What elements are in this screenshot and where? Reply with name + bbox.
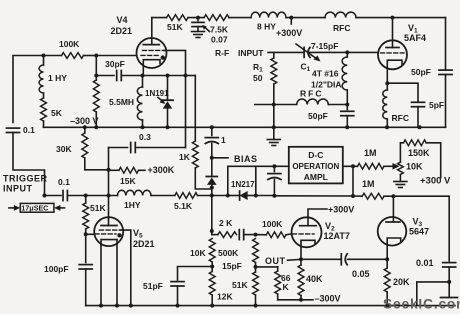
- label 1 HY: [48, 73, 67, 83]
- node 5pF bottom: [418, 125, 422, 129]
- svg-text:15K: 15K: [120, 176, 136, 186]
- svg-text:0.07: 0.07: [211, 35, 228, 45]
- resistor 51K trigger: [83, 196, 89, 235]
- V5 grid row1: [100, 229, 121, 231]
- wire 51K to 0.07 node: [188, 17, 204, 19]
- box D-C OPERATION AMPL: [289, 147, 343, 184]
- inductor RFC top: [325, 12, 356, 18]
- svg-text:51K: 51K: [167, 22, 183, 32]
- label 1/2 DIA: [311, 80, 342, 90]
- wire top bus from V4 plate to 51K: [152, 17, 167, 19]
- wire diode to row: [211, 185, 213, 196]
- capacitor 0.07: [192, 18, 204, 31]
- label 1K: [179, 152, 191, 162]
- label 0.1 trigger: [58, 177, 70, 187]
- label 1M lower: [362, 179, 375, 189]
- svg-text:RFC: RFC: [300, 89, 323, 99]
- wire 8HY node to RFC: [286, 17, 325, 19]
- svg-text:RFC: RFC: [333, 23, 350, 33]
- resistor grid leak: [93, 80, 99, 112]
- wire right rail to bus: [445, 75, 447, 128]
- wire 150K to right leg: [426, 143, 441, 178]
- wire V4 grid1 to vertical: [164, 50, 186, 75]
- V5 plate bar: [101, 219, 117, 226]
- resistor 10K stack: [209, 239, 215, 263]
- resistor 500K: [253, 239, 259, 263]
- capacitor C1 variable 7-15pF: [296, 44, 321, 62]
- wire C1 to coil node: [309, 51, 347, 53]
- svg-text:1HY: 1HY: [124, 200, 141, 210]
- wire bottom bus: [86, 305, 455, 307]
- inductor 1HY horizontal: [118, 190, 152, 195]
- label V1: [404, 23, 426, 43]
- node 51K bottom: [254, 304, 258, 308]
- svg-text:15pF: 15pF: [222, 261, 242, 271]
- svg-text:8 HY: 8 HY: [257, 22, 276, 32]
- wire RFC to V1 plate node: [356, 17, 393, 19]
- node grid leak bottom: [94, 125, 98, 129]
- node 15K tee: [107, 168, 111, 172]
- svg-text:OUT: OUT: [265, 256, 286, 266]
- svg-text:50pF: 50pF: [308, 111, 328, 121]
- V5 grid row2: [95, 233, 116, 235]
- svg-text:1: 1: [221, 135, 226, 145]
- svg-text:50pF: 50pF: [411, 67, 431, 77]
- node V5 cathode bottom: [99, 304, 103, 308]
- V5 inner dot: [117, 233, 121, 237]
- tube V3 envelope: [378, 217, 407, 246]
- wire 5K to -300V bus: [43, 121, 45, 127]
- wire V1 plate lead: [392, 18, 394, 48]
- tube V5 envelope: [94, 217, 123, 246]
- diode 1N217: [240, 191, 248, 200]
- label +300K: [148, 165, 175, 175]
- label 0.01: [416, 258, 434, 268]
- label 10K pot: [406, 162, 423, 172]
- node 1N217 right: [254, 194, 258, 198]
- svg-text:R-F: R-F: [215, 48, 229, 58]
- node 12K bottom: [210, 304, 214, 308]
- V2 grid dashes: [293, 233, 315, 235]
- V4 plate bar: [143, 44, 159, 46]
- label 0.07 with arrow: [202, 25, 228, 45]
- pulse symbol 17uSEC: [9, 203, 65, 212]
- capacitor 0.05: [341, 254, 347, 265]
- diode 1N191: [162, 100, 173, 108]
- svg-text:1N217: 1N217: [231, 180, 255, 189]
- label 5K: [51, 108, 63, 118]
- label 66K: [281, 273, 291, 292]
- wire pot to ground: [399, 175, 401, 181]
- svg-text:+300K: +300K: [148, 165, 175, 175]
- capacitor 0.01: [443, 263, 456, 282]
- V1 grid dashes: [381, 52, 405, 54]
- capacitor coupling 2K row: [239, 230, 243, 240]
- label 40K: [306, 274, 323, 284]
- wire 1 cap to diode: [211, 158, 213, 177]
- node 30K top: [83, 125, 87, 129]
- wire 50pF to bus: [346, 116, 348, 128]
- svg-text:1 HY: 1 HY: [48, 73, 67, 83]
- label 0.05: [352, 269, 370, 279]
- label 30K: [56, 144, 72, 154]
- resistor 5.1K: [175, 193, 198, 199]
- wire -300V lower: [278, 299, 313, 301]
- ground R1: [267, 127, 280, 145]
- wire V3 cathode down: [386, 243, 388, 260]
- node 20K bottom: [385, 304, 389, 308]
- capacitor 50pF lower-left: [341, 111, 354, 115]
- svg-text:100K: 100K: [262, 219, 283, 229]
- V3 cathode: [387, 238, 401, 243]
- wire 1N191 top lead: [167, 76, 169, 101]
- wire -300V bus: [44, 126, 446, 128]
- resistor 1M lower: [362, 193, 384, 199]
- capacitor 0.3: [131, 143, 136, 153]
- label 20K: [393, 277, 410, 287]
- inductor 1 HY vertical: [39, 56, 43, 94]
- label V3: [409, 217, 429, 237]
- node 30pF tee: [94, 74, 98, 78]
- wire OUT to 0.05: [301, 258, 341, 260]
- wire rail termination: [441, 282, 458, 298]
- wire grid return corner: [186, 75, 196, 77]
- capacitor 100pF: [79, 234, 92, 305]
- inductor 4T #16: [342, 52, 347, 109]
- wire box output: [343, 165, 358, 167]
- svg-text:51K: 51K: [232, 280, 248, 290]
- label V4: [111, 15, 133, 36]
- svg-text:7.5K: 7.5K: [210, 25, 229, 35]
- label +300V top: [276, 28, 302, 38]
- capacitor 30pF: [117, 71, 122, 81]
- wire corner to 20K bottom: [417, 282, 449, 306]
- node 1HY top: [42, 54, 46, 58]
- V2 cathode: [301, 240, 315, 247]
- svg-text:2D21: 2D21: [133, 239, 155, 249]
- node bias tee: [210, 156, 214, 160]
- resistor 51K stack: [253, 272, 259, 306]
- wire cathode node to diode node: [143, 75, 168, 77]
- svg-text:–300V: –300V: [315, 294, 341, 304]
- wire cathode to 5pF: [387, 83, 418, 101]
- resistor 20K: [384, 259, 390, 305]
- node box output: [351, 164, 355, 168]
- inductor RFC left: [297, 99, 329, 105]
- wire bias left vertical: [228, 166, 256, 195]
- svg-text:SeekIC.com: SeekIC.com: [383, 297, 460, 312]
- resistor 51K (plate load V4): [167, 15, 189, 21]
- wire 1HY to 5K: [43, 93, 45, 98]
- wire x108 vertical: [108, 148, 110, 219]
- arrow 1M to pot: [384, 163, 400, 170]
- svg-text:12AT7: 12AT7: [324, 231, 350, 241]
- label INPUT: [3, 184, 33, 194]
- svg-text:100pF: 100pF: [44, 264, 69, 274]
- node right rail corner: [447, 280, 451, 284]
- node 1N191 bottom: [166, 125, 170, 129]
- resistor 100K V2: [266, 232, 286, 238]
- wire node to 100K: [256, 234, 267, 236]
- label 50pF lower: [308, 111, 328, 121]
- node 40K bottom: [299, 298, 303, 302]
- node 1N191 top: [166, 74, 170, 78]
- V5 cathode: [101, 240, 117, 246]
- node V5 plate: [107, 194, 111, 198]
- V4 grid row 2 dashes: [141, 54, 160, 56]
- wire 1M to V3 plate node: [384, 195, 393, 197]
- label 51K: [167, 22, 183, 32]
- wire 66K branch: [256, 266, 278, 268]
- resistor 150K: [404, 140, 427, 146]
- svg-text:+300 V: +300 V: [420, 176, 451, 187]
- wire 0.1 down to trigger step: [13, 133, 45, 196]
- wire 5.1K to 2K node: [198, 195, 212, 197]
- svg-text:17μSEC: 17μSEC: [21, 204, 48, 213]
- capacitor 51pF: [171, 282, 184, 306]
- label 12K: [217, 292, 233, 302]
- inductor RFC right: [383, 83, 388, 127]
- svg-text:RFC: RFC: [392, 113, 409, 123]
- svg-text:5K: 5K: [51, 108, 63, 118]
- svg-text:TRIGGER: TRIGGER: [3, 174, 48, 184]
- wire 51pF branch: [178, 267, 213, 281]
- svg-text:51pF: 51pF: [143, 281, 163, 291]
- node trigger input: [43, 194, 47, 198]
- node V1 plate: [391, 16, 395, 20]
- svg-text:0.01: 0.01: [416, 258, 434, 268]
- label 2 K: [219, 218, 233, 228]
- resistor 30K: [82, 127, 109, 170]
- svg-text:5AF4: 5AF4: [404, 33, 426, 43]
- svg-text:1M: 1M: [362, 179, 375, 189]
- node V5 shield bottom: [129, 304, 133, 308]
- node 50pF top: [345, 103, 349, 107]
- resistor 12K: [209, 272, 215, 306]
- wire trigger to 0.1: [45, 195, 62, 197]
- label RFC top: [333, 23, 350, 33]
- svg-text:0.1: 0.1: [58, 177, 70, 187]
- wire V5 cathode right leg: [116, 240, 118, 306]
- wire bias right vertical: [255, 166, 257, 195]
- resistor 1M upper: [358, 163, 385, 169]
- svg-text:K: K: [283, 282, 290, 292]
- node diode top: [210, 186, 214, 190]
- svg-text:5.5MH: 5.5MH: [109, 97, 134, 107]
- wire 100K to V2 grid: [286, 233, 292, 236]
- wire node to V4 grid: [96, 55, 136, 57]
- wire box output down: [352, 166, 354, 196]
- wire crossover x=195.3: [194, 76, 196, 142]
- node 5.5MH bottom: [141, 125, 145, 129]
- node 50pF bottom: [345, 125, 349, 129]
- V4 cathode: [143, 60, 160, 66]
- wire bias stub: [212, 157, 228, 159]
- wire grid node down: [95, 56, 97, 76]
- label 100K: [59, 39, 80, 49]
- label 30pF: [105, 59, 125, 69]
- label -300V lower: [315, 294, 341, 304]
- wire to 1N217 left node: [212, 195, 228, 197]
- svg-text:20K: 20K: [393, 277, 410, 287]
- svg-text:2D21: 2D21: [111, 26, 133, 36]
- label 0.3: [139, 132, 151, 142]
- label 50pF right: [411, 67, 431, 77]
- label 5.1K: [174, 201, 193, 211]
- wire bias to box: [274, 165, 288, 167]
- tube V1 envelope: [378, 40, 407, 69]
- node V5 right leg bottom: [115, 304, 119, 308]
- svg-text:INPUT: INPUT: [238, 48, 264, 58]
- svg-text:1/2"DIA: 1/2"DIA: [311, 80, 342, 90]
- label 100pF: [44, 264, 69, 274]
- V2 plate bar: [300, 225, 317, 227]
- wire cap node to DC out node: [274, 195, 353, 197]
- wire 1HY to 5.1K: [151, 195, 175, 197]
- wire V1 cathode down: [386, 67, 388, 83]
- svg-text:0.05: 0.05: [352, 269, 370, 279]
- label R1: [253, 62, 263, 83]
- svg-text:12K: 12K: [217, 292, 233, 302]
- wire cap to 500K node: [244, 234, 256, 236]
- label 15K: [120, 176, 136, 186]
- watermark SeekIC.com: [383, 297, 460, 312]
- resistor 66K: [275, 267, 281, 300]
- V1 plate bar: [386, 47, 399, 49]
- wire to 1N217: [228, 195, 240, 197]
- node 2K corner: [210, 229, 214, 233]
- label 15pF: [222, 261, 242, 271]
- resistor 2K: [212, 232, 237, 238]
- inductor 5.5MH: [137, 76, 142, 128]
- svg-text:1N191: 1N191: [145, 89, 169, 98]
- svg-text:1K: 1K: [179, 152, 191, 162]
- wire 0.3 left corner: [109, 147, 128, 149]
- tube V2 envelope: [292, 217, 322, 247]
- capacitor 1: [205, 127, 218, 158]
- wire RFC to 50pF node: [328, 104, 347, 106]
- svg-text:30K: 30K: [56, 144, 72, 154]
- label 1N217: [231, 180, 255, 189]
- svg-text:OPERATION: OPERATION: [292, 162, 339, 171]
- label RFC left: [300, 89, 323, 99]
- resistor 1K: [192, 141, 211, 189]
- resistor 15K: [109, 167, 146, 173]
- V1 cathode: [387, 60, 402, 67]
- node 66K junction: [254, 265, 258, 269]
- wire coil node to V1 grid: [347, 51, 378, 53]
- node V4 cathode junction: [141, 74, 145, 78]
- label C1: [301, 62, 311, 74]
- svg-text:5.1K: 5.1K: [174, 201, 193, 211]
- svg-text:AMPL: AMPL: [304, 172, 328, 182]
- svg-text:BIAS: BIAS: [234, 154, 258, 164]
- label 5pF: [429, 100, 444, 110]
- node 15pF junction: [210, 265, 214, 269]
- wire V2 plate supply: [308, 209, 327, 226]
- resistor R1 50: [271, 52, 277, 127]
- svg-text:50: 50: [253, 73, 263, 83]
- label V5: [133, 228, 155, 249]
- capacitor 5pF: [412, 102, 425, 106]
- svg-text:7-15pF: 7-15pF: [311, 41, 338, 51]
- capacitor 0.1 trigger: [63, 191, 67, 201]
- tube V4 envelope: [137, 38, 167, 68]
- V4 grid row 1 dashes: [143, 49, 165, 51]
- svg-text:2 K: 2 K: [219, 218, 233, 228]
- wire V2 cathode down: [300, 247, 302, 259]
- svg-text:1M: 1M: [364, 148, 377, 158]
- node bias cap bottom: [272, 194, 276, 198]
- wire input to R1 corner: [268, 51, 304, 53]
- wire crossover x=185.5: [185, 76, 187, 148]
- svg-text:100K: 100K: [59, 39, 80, 49]
- node 0.07 junction: [196, 16, 200, 20]
- node +300V top: [289, 16, 293, 24]
- svg-text:INPUT: INPUT: [3, 184, 33, 194]
- node V3 plate: [391, 194, 395, 198]
- svg-text:V4: V4: [117, 15, 128, 25]
- ground pot: [394, 182, 407, 188]
- wire V3 node to right rail: [393, 196, 449, 261]
- label R-F INPUT: [215, 48, 264, 58]
- label TRIGGER: [3, 174, 48, 184]
- node 1N217 left: [226, 194, 230, 198]
- label 7-15pF: [311, 41, 338, 51]
- svg-text:51K: 51K: [90, 203, 106, 213]
- capacitor 0.1 left: [7, 128, 20, 132]
- svg-text:40K: 40K: [306, 274, 323, 284]
- node 4T coil top: [345, 50, 349, 54]
- svg-text:4T #16: 4T #16: [312, 69, 339, 79]
- svg-text:5pF: 5pF: [429, 100, 444, 110]
- node OUT: [299, 257, 303, 261]
- resistor 100K: [62, 53, 84, 59]
- resistor 40K: [298, 259, 304, 300]
- node 500K top: [254, 233, 258, 237]
- label 1N191 with arrow: [145, 89, 169, 104]
- V3 plate bar: [386, 221, 400, 223]
- svg-text:0.3: 0.3: [139, 132, 151, 142]
- label 5.5MH: [109, 97, 134, 107]
- node R1 ground: [272, 125, 276, 129]
- wire V4 plate lead: [151, 18, 153, 45]
- node V5 grid: [84, 232, 88, 236]
- svg-text:D-C: D-C: [308, 150, 323, 160]
- wire 10K to 12K: [211, 262, 213, 272]
- label 0.1 left: [23, 125, 35, 135]
- label 7.5K: [210, 25, 229, 35]
- node grid divider: [94, 54, 98, 58]
- node 1uF top: [210, 125, 214, 129]
- node bias cap top: [272, 164, 276, 168]
- label 1 cap: [221, 135, 226, 145]
- resistor 10K pot: [398, 162, 404, 174]
- node 51K top: [84, 194, 88, 198]
- wire 30pF to cathode node: [121, 75, 142, 77]
- node grid return: [184, 74, 188, 78]
- wire to 100K: [44, 55, 62, 57]
- V4 inner grid dot: [161, 55, 165, 59]
- node 2K branch: [210, 194, 214, 198]
- label 150K: [408, 148, 430, 158]
- svg-text:30pF: 30pF: [105, 59, 125, 69]
- wire 7.5K to 8HY: [229, 17, 251, 19]
- label 51K trigger: [90, 203, 106, 213]
- wire bias row to cap: [256, 165, 275, 167]
- wire 500K to 51K: [255, 263, 257, 273]
- wire 0.1 to 51K node: [67, 195, 85, 197]
